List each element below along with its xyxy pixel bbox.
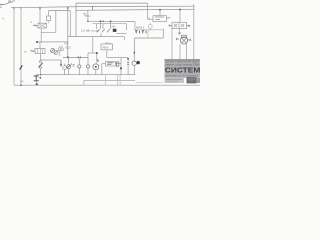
svg-text:рм: рм [167, 17, 170, 20]
svg-text:ПЭ-т: ПЭ-т [85, 14, 92, 18]
svg-text:м: м [25, 51, 27, 54]
svg-text:БСЛ: БСЛ [108, 63, 113, 66]
svg-text:МИН-2: МИН-2 [136, 25, 145, 29]
svg-text:ДА-07: ДА-07 [8, 0, 16, 3]
svg-text:РВ-6: РВ-6 [103, 45, 109, 49]
svg-text:запчасти и сервис: запчасти и сервис [165, 73, 199, 77]
svg-text:С2: С2 [178, 31, 182, 35]
svg-text:24°: 24° [20, 80, 24, 83]
svg-text:РВЦ-6: РВЦ-6 [105, 43, 112, 45]
svg-text:ПД-1: ПД-1 [66, 47, 72, 50]
svg-text:2,2 кВт эл.дв: 2,2 кВт эл.дв [81, 29, 99, 33]
